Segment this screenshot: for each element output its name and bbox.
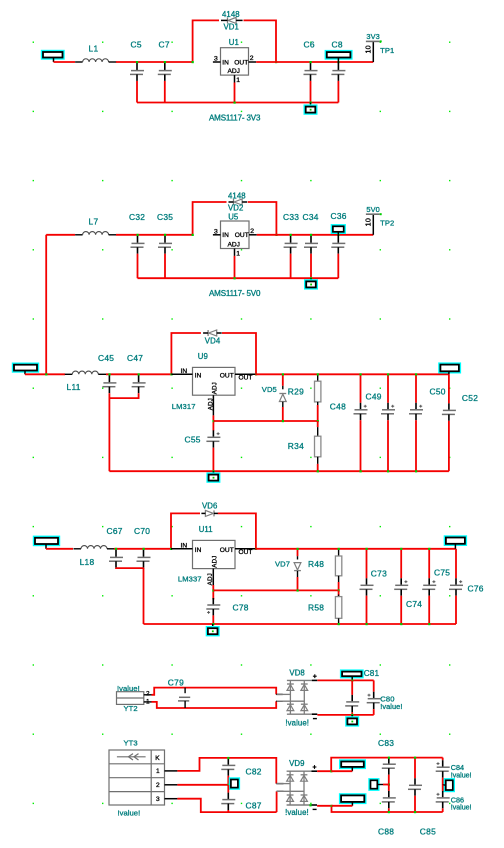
svg-text:IN: IN bbox=[195, 373, 202, 380]
svg-text:C48: C48 bbox=[330, 401, 346, 411]
ground stub bbox=[310, 278, 312, 281]
svg-text:!value!: !value! bbox=[118, 809, 141, 818]
diode VD7 symbol bbox=[294, 570, 301, 572]
svg-text:C34: C34 bbox=[303, 212, 319, 222]
wire + lead extension bbox=[331, 770, 352, 772]
svg-text:3: 3 bbox=[214, 56, 218, 63]
bridge diode bbox=[287, 794, 294, 796]
connector pad P3 (input) bbox=[12, 363, 39, 373]
bridge diode bbox=[287, 774, 294, 776]
wire VD1 to OUT bbox=[244, 20, 277, 62]
svg-text:AMS1117- 5V0: AMS1117- 5V0 bbox=[209, 289, 261, 298]
svg-text:TP1: TP1 bbox=[380, 46, 394, 55]
ADJ rail section 4 bbox=[213, 589, 338, 591]
svg-text:1: 1 bbox=[156, 768, 160, 775]
capacitor C80 (polarized) bbox=[373, 680, 375, 691]
bridge rectifier VD9 bbox=[287, 770, 312, 772]
capacitor C79 bbox=[184, 688, 186, 694]
svg-text:IN: IN bbox=[195, 547, 202, 554]
capacitor C83 bbox=[388, 756, 390, 758]
junction bbox=[351, 714, 353, 716]
svg-text:C35: C35 bbox=[157, 212, 173, 222]
junction bbox=[330, 770, 332, 772]
svg-text:C67: C67 bbox=[107, 526, 123, 536]
wire C45/C47 bottoms bbox=[109, 393, 138, 398]
svg-text:OUT: OUT bbox=[239, 549, 253, 556]
capacitor C36 body pad bbox=[331, 224, 346, 234]
svg-text:ADJ: ADJ bbox=[207, 398, 214, 410]
pin OUT of U9 bbox=[235, 373, 255, 375]
svg-text:ADJ: ADJ bbox=[228, 68, 240, 75]
resistor R48 bbox=[338, 549, 340, 556]
wire bridge - to bottom rail bbox=[317, 806, 443, 812]
capacitor C52 bbox=[448, 374, 450, 403]
svg-text:C88: C88 bbox=[378, 827, 394, 837]
pin ADJ of U9 bbox=[212, 395, 214, 415]
pin of C81 pad bbox=[351, 676, 353, 680]
transformer arrow symbol bbox=[117, 756, 146, 758]
capacitor C8 bbox=[337, 62, 339, 70]
svg-text:C86: C86 bbox=[451, 795, 464, 804]
capacitor C36 bbox=[337, 235, 339, 243]
svg-text:C70: C70 bbox=[134, 526, 150, 536]
wire IN up to VD4 bbox=[171, 333, 201, 374]
svg-text:ADJ: ADJ bbox=[228, 242, 240, 249]
diode VD1 (4148) bbox=[227, 17, 229, 23]
svg-text:!value!: !value! bbox=[380, 702, 402, 711]
wire bridge + to top rail bbox=[317, 758, 443, 772]
junction bbox=[388, 757, 390, 759]
wire bridge + rail bbox=[317, 679, 373, 681]
junction bbox=[414, 757, 416, 759]
wire pin3 to bottom bbox=[177, 799, 276, 812]
wire pin1 to bridge AC1 bbox=[177, 758, 276, 784]
capacitor C85 bbox=[414, 758, 416, 779]
diode VD7 bbox=[297, 549, 299, 556]
svg-text:C76: C76 bbox=[468, 584, 484, 594]
capacitor C70 bbox=[143, 549, 145, 557]
svg-text:K: K bbox=[155, 755, 160, 762]
wire IN up to VD6 bbox=[171, 513, 200, 548]
svg-text:IN: IN bbox=[222, 59, 229, 66]
connector pad P1 (3V3 input) bbox=[41, 50, 65, 60]
resistor R34 body bbox=[317, 436, 319, 437]
wire L7 to loop junction bbox=[116, 234, 193, 236]
OUT rail section 3 bbox=[255, 373, 449, 375]
junction bbox=[234, 102, 236, 104]
pin of - pad bbox=[351, 802, 353, 806]
svg-text:!value!: !value! bbox=[285, 718, 309, 727]
wire L11 to U9 bbox=[106, 373, 171, 375]
junction bbox=[227, 757, 229, 759]
resistor R29 bbox=[317, 374, 319, 381]
OUT rail section 4 bbox=[255, 548, 456, 550]
pad at C82/C87 midpoint bbox=[229, 777, 240, 790]
wire pad to C83/C88 node bbox=[383, 784, 389, 786]
pin 1 ADJ of U5 bbox=[234, 249, 236, 256]
AC stub bbox=[276, 783, 283, 785]
svg-text:!value!: !value! bbox=[285, 808, 309, 817]
ground pad section 5 bbox=[345, 716, 359, 726]
svg-text:2: 2 bbox=[250, 55, 254, 62]
bridge diode bbox=[287, 683, 294, 685]
svg-text:C50: C50 bbox=[430, 386, 446, 396]
pin 2 of YT2 bbox=[144, 694, 152, 696]
wire P1 to L1 bbox=[54, 61, 76, 63]
capacitor C8 body pad bbox=[325, 50, 353, 60]
pin IN of U9 bbox=[171, 373, 192, 375]
wire P4 to L18 bbox=[46, 548, 73, 550]
pin 1 of YT3 bbox=[165, 770, 178, 772]
svg-text:YT3: YT3 bbox=[124, 739, 138, 748]
capacitor C76 bbox=[455, 549, 457, 579]
svg-text:C7: C7 bbox=[159, 39, 170, 49]
svg-text:5V0: 5V0 bbox=[366, 205, 379, 214]
wire input to L7 bbox=[46, 234, 75, 236]
svg-text:C8: C8 bbox=[332, 39, 343, 49]
svg-text:C5: C5 bbox=[131, 39, 142, 49]
svg-text:10: 10 bbox=[364, 45, 373, 53]
grid dots bbox=[33, 42, 34, 43]
inductor L11 bbox=[65, 373, 73, 375]
wire C67/C70 bottoms bbox=[116, 567, 144, 569]
connector pad P4 (input) bbox=[33, 536, 60, 547]
regulator U11 (LM337) bbox=[193, 540, 236, 568]
pin of C36 pad bbox=[337, 232, 339, 235]
svg-text:C49: C49 bbox=[366, 391, 382, 401]
regulator U5 (AMS1117-5V0) bbox=[221, 221, 250, 249]
capacitor C47 bbox=[138, 374, 140, 382]
capacitor C88 bbox=[388, 785, 390, 791]
svg-text:C45: C45 bbox=[98, 353, 114, 363]
wire YT2 pin1 to bridge bbox=[152, 701, 277, 708]
svg-text:TP2: TP2 bbox=[380, 219, 394, 228]
ground stub bbox=[310, 103, 312, 107]
capacitor C86 (polarized) bbox=[442, 785, 444, 791]
pin of P1 bbox=[53, 58, 55, 63]
junction bbox=[192, 61, 194, 63]
junction bbox=[212, 623, 214, 625]
svg-text:LM337: LM337 bbox=[178, 575, 202, 584]
svg-text:1: 1 bbox=[236, 77, 240, 84]
svg-text:C84: C84 bbox=[451, 763, 464, 772]
junction bbox=[366, 548, 368, 550]
wire bridge - rail bbox=[317, 714, 373, 716]
pad at C84/C86 midpoint bbox=[444, 778, 455, 792]
junction bbox=[234, 277, 236, 279]
svg-text:2: 2 bbox=[156, 782, 160, 789]
svg-text:C73: C73 bbox=[371, 568, 387, 578]
svg-text:C85: C85 bbox=[420, 827, 436, 837]
connector pad P3out (output) bbox=[438, 362, 461, 373]
svg-text:1: 1 bbox=[236, 250, 240, 257]
pad on - rail bbox=[339, 793, 367, 804]
svg-text:R29: R29 bbox=[288, 386, 304, 396]
junction bbox=[115, 548, 117, 550]
svg-text:C47: C47 bbox=[127, 353, 143, 363]
inductor L18 bbox=[74, 548, 82, 550]
ground pad section 3 bbox=[206, 472, 220, 482]
resistor R34 bbox=[317, 421, 319, 427]
svg-text:R34: R34 bbox=[288, 441, 304, 451]
svg-text:ADJ: ADJ bbox=[211, 382, 218, 394]
connector pad P4out (output) bbox=[444, 535, 467, 546]
junction bbox=[212, 589, 214, 591]
svg-text:U9: U9 bbox=[198, 352, 208, 361]
junction bbox=[317, 373, 319, 375]
svg-text:OUT: OUT bbox=[234, 59, 248, 66]
capacitor C49 bbox=[387, 374, 389, 403]
pin IN of U11 bbox=[171, 548, 193, 550]
wire ADJ to bottom rail bbox=[234, 256, 236, 278]
resistor R58 body bbox=[338, 597, 340, 598]
resistor R29 body bbox=[317, 381, 319, 382]
capacitor C67 bbox=[115, 549, 117, 557]
wire ADJ down bbox=[212, 415, 214, 430]
capacitor C73 bbox=[366, 549, 368, 579]
junction bbox=[136, 61, 138, 63]
svg-text:VD8: VD8 bbox=[289, 668, 304, 677]
pin of C8 pad bbox=[337, 58, 339, 63]
junction bbox=[310, 61, 312, 63]
capacitor C75 bbox=[428, 549, 430, 579]
junction bbox=[297, 548, 299, 550]
wire L1 to VD1 loop junction bbox=[116, 61, 193, 63]
wire OUT rail to TP1 bbox=[256, 61, 373, 63]
junction bbox=[108, 373, 110, 375]
connector YT2 bbox=[117, 692, 144, 705]
svg-text:ADJ: ADJ bbox=[207, 573, 214, 585]
svg-text:!value!: !value! bbox=[451, 805, 472, 812]
wire VD6 to OUT bbox=[218, 513, 256, 548]
pad on + rail bbox=[339, 759, 366, 769]
capacitor C35 bbox=[164, 235, 166, 243]
capacitor C48 bbox=[360, 374, 362, 403]
test point TP1 (3V3) bbox=[372, 42, 374, 62]
capacitor C81 body pad bbox=[340, 669, 364, 678]
junction bbox=[137, 234, 139, 236]
junction bbox=[282, 373, 284, 375]
svg-text:R58: R58 bbox=[308, 603, 324, 613]
capacitor C82 bbox=[227, 757, 229, 760]
junction bbox=[212, 420, 214, 422]
svg-text:VD7: VD7 bbox=[275, 559, 290, 568]
bottom rail section 3 bbox=[109, 470, 449, 472]
svg-text:2: 2 bbox=[250, 228, 254, 235]
bridge diode bbox=[301, 794, 308, 796]
pin of P4out bbox=[454, 544, 456, 549]
svg-text:C55: C55 bbox=[185, 435, 201, 445]
regulator U9 (LM317) bbox=[193, 367, 236, 395]
junction bbox=[45, 373, 47, 375]
svg-text:3V3: 3V3 bbox=[366, 32, 379, 41]
test point TP2 (5V0) bbox=[372, 215, 374, 235]
ground stub bbox=[351, 715, 353, 719]
svg-text:C78: C78 bbox=[233, 603, 249, 613]
svg-text:2: 2 bbox=[146, 690, 150, 697]
resistor R48 body bbox=[338, 556, 340, 557]
svg-text:C79: C79 bbox=[168, 677, 184, 687]
junction bbox=[192, 234, 194, 236]
inductor L7 bbox=[75, 234, 83, 236]
wire ADJ to bottom rail bbox=[234, 83, 236, 103]
svg-text:C52: C52 bbox=[462, 393, 478, 403]
svg-text:VD1: VD1 bbox=[224, 22, 239, 31]
capacitor C32 bbox=[137, 235, 139, 243]
diode VD4 bbox=[207, 330, 209, 336]
svg-text:L1: L1 bbox=[89, 44, 99, 54]
svg-text:OUT: OUT bbox=[220, 547, 234, 554]
resistor R58 bbox=[338, 590, 340, 596]
svg-text:LM317: LM317 bbox=[172, 402, 196, 411]
svg-text:C74: C74 bbox=[406, 599, 422, 609]
wire IN up to VD2 bbox=[193, 202, 227, 235]
diode VD2 (4148) bbox=[233, 199, 235, 205]
svg-text:R48: R48 bbox=[308, 559, 324, 569]
capacitor C55 (polarized) bbox=[212, 429, 214, 431]
capacitor C81 bbox=[351, 680, 353, 695]
pin of + pad bbox=[351, 767, 353, 771]
svg-text:C82: C82 bbox=[246, 766, 262, 776]
diode VD5 symbol bbox=[279, 393, 286, 395]
bridge diode bbox=[301, 683, 308, 685]
pin 1 ADJ of U1 bbox=[234, 75, 236, 82]
pin of P4 bbox=[45, 544, 47, 549]
wire YT2 pin2 to bridge bbox=[152, 688, 277, 695]
svg-text:C87: C87 bbox=[246, 801, 262, 811]
pin ADJ of U11 bbox=[212, 569, 214, 585]
junction bbox=[290, 234, 292, 236]
pad at C83/C88 midpoint bbox=[368, 778, 379, 791]
svg-text:VD5: VD5 bbox=[262, 385, 277, 394]
pin 3 IN of U1 bbox=[213, 61, 221, 63]
wire P3 to L11 bbox=[25, 373, 65, 375]
ground pad section 2 bbox=[304, 279, 318, 289]
diode VD5 bbox=[282, 374, 284, 386]
ground stub bbox=[212, 471, 214, 474]
wire down to bottom rail bbox=[108, 398, 110, 471]
AC stub bbox=[276, 693, 283, 695]
pin of midpoint pad bbox=[377, 784, 383, 786]
pin 2 OUT of U5 bbox=[249, 234, 257, 236]
junction bbox=[170, 373, 172, 375]
wire pin2 middle rail bbox=[177, 784, 228, 786]
svg-text:C32: C32 bbox=[129, 212, 145, 222]
svg-text:OUT: OUT bbox=[220, 373, 234, 380]
left input rail down to section 3 bbox=[45, 235, 47, 374]
bottom rail section 1 bbox=[137, 102, 338, 104]
ADJ rail to divider bbox=[213, 420, 317, 422]
bridge diode bbox=[287, 703, 294, 705]
AC stub bbox=[276, 700, 283, 702]
regulator U1 (AMS1117-3V3) bbox=[221, 48, 249, 75]
svg-text:U5: U5 bbox=[228, 212, 239, 221]
svg-text:IN: IN bbox=[181, 542, 188, 549]
capacitor C50 bbox=[415, 374, 417, 403]
svg-text:U1: U1 bbox=[229, 38, 239, 47]
ground pad section 1 bbox=[304, 104, 318, 114]
svg-text:L18: L18 bbox=[80, 557, 95, 567]
pin OUT of U11 bbox=[235, 548, 255, 550]
svg-text:C75: C75 bbox=[434, 568, 450, 578]
capacitor C33 bbox=[290, 235, 292, 243]
junction bbox=[227, 784, 229, 786]
capacitor C74 bbox=[400, 549, 402, 579]
svg-text:C81: C81 bbox=[364, 669, 380, 678]
capacitor C78 (polarized) bbox=[212, 598, 214, 600]
ground stub bbox=[212, 624, 214, 628]
pin 3 of YT3 bbox=[165, 798, 178, 800]
bridge rectifier VD8 bbox=[287, 679, 312, 681]
wire up to bridge AC2 bbox=[276, 791, 278, 812]
capacitor C34 bbox=[310, 235, 312, 243]
junction bbox=[331, 805, 333, 807]
svg-text:IN: IN bbox=[181, 368, 188, 375]
wire C84 to pad bbox=[442, 778, 444, 785]
svg-text:YT2: YT2 bbox=[124, 704, 138, 713]
wire - lead extension bbox=[332, 805, 353, 807]
wire VD4 to OUT bbox=[222, 333, 256, 374]
pin 2 of YT3 bbox=[165, 784, 178, 786]
junction bbox=[212, 470, 214, 472]
wire IN up to VD1 bbox=[193, 20, 219, 62]
bottom rail section 4 bbox=[144, 623, 457, 625]
svg-text:IN: IN bbox=[222, 232, 229, 239]
pin of C84/C86 pad bbox=[443, 784, 446, 786]
ground pad section 4 bbox=[206, 626, 220, 636]
svg-text:OUT: OUT bbox=[239, 375, 253, 382]
svg-text:3: 3 bbox=[214, 228, 218, 235]
svg-text:ADJ: ADJ bbox=[211, 555, 218, 567]
pin 2 OUT of U1 bbox=[249, 61, 257, 63]
bridge diode bbox=[301, 703, 308, 705]
svg-text:C83: C83 bbox=[378, 738, 394, 748]
bottom rail section 2 bbox=[138, 277, 339, 279]
svg-text:VD4: VD4 bbox=[205, 336, 221, 345]
wire down to bottom rail sec4 bbox=[143, 568, 145, 624]
bridge diode bbox=[301, 774, 308, 776]
capacitor C5 bbox=[136, 62, 138, 70]
diode VD6 bbox=[213, 510, 215, 516]
AC stub bbox=[277, 790, 284, 792]
svg-text:OUT: OUT bbox=[235, 232, 249, 239]
svg-text:C33: C33 bbox=[283, 212, 299, 222]
pin 1 of YT2 bbox=[144, 701, 152, 703]
svg-text:3: 3 bbox=[156, 796, 160, 803]
inductor L1 bbox=[75, 61, 83, 63]
junction bbox=[360, 373, 362, 375]
capacitor C84 (polarized) bbox=[442, 758, 444, 761]
capacitor C7 bbox=[164, 62, 166, 70]
svg-text:L11: L11 bbox=[67, 382, 81, 392]
svg-text:L7: L7 bbox=[89, 217, 99, 227]
svg-text:C6: C6 bbox=[304, 39, 315, 49]
svg-text:VD9: VD9 bbox=[289, 759, 304, 768]
junction bbox=[338, 548, 340, 550]
svg-text:10: 10 bbox=[364, 218, 373, 226]
svg-text:VD6: VD6 bbox=[202, 501, 217, 510]
svg-text:AMS1117- 3V3: AMS1117- 3V3 bbox=[209, 113, 261, 122]
pin of P3 bbox=[24, 371, 26, 375]
wire ADJ down bbox=[212, 585, 214, 600]
svg-text:!value!: !value! bbox=[117, 684, 140, 693]
svg-text:4148: 4148 bbox=[222, 10, 240, 19]
junction bbox=[170, 548, 172, 550]
svg-text:1: 1 bbox=[146, 698, 150, 705]
pin 3 IN of U5 bbox=[213, 234, 221, 236]
wire VD2 to OUT bbox=[248, 202, 277, 235]
capacitor C6 bbox=[310, 62, 312, 70]
